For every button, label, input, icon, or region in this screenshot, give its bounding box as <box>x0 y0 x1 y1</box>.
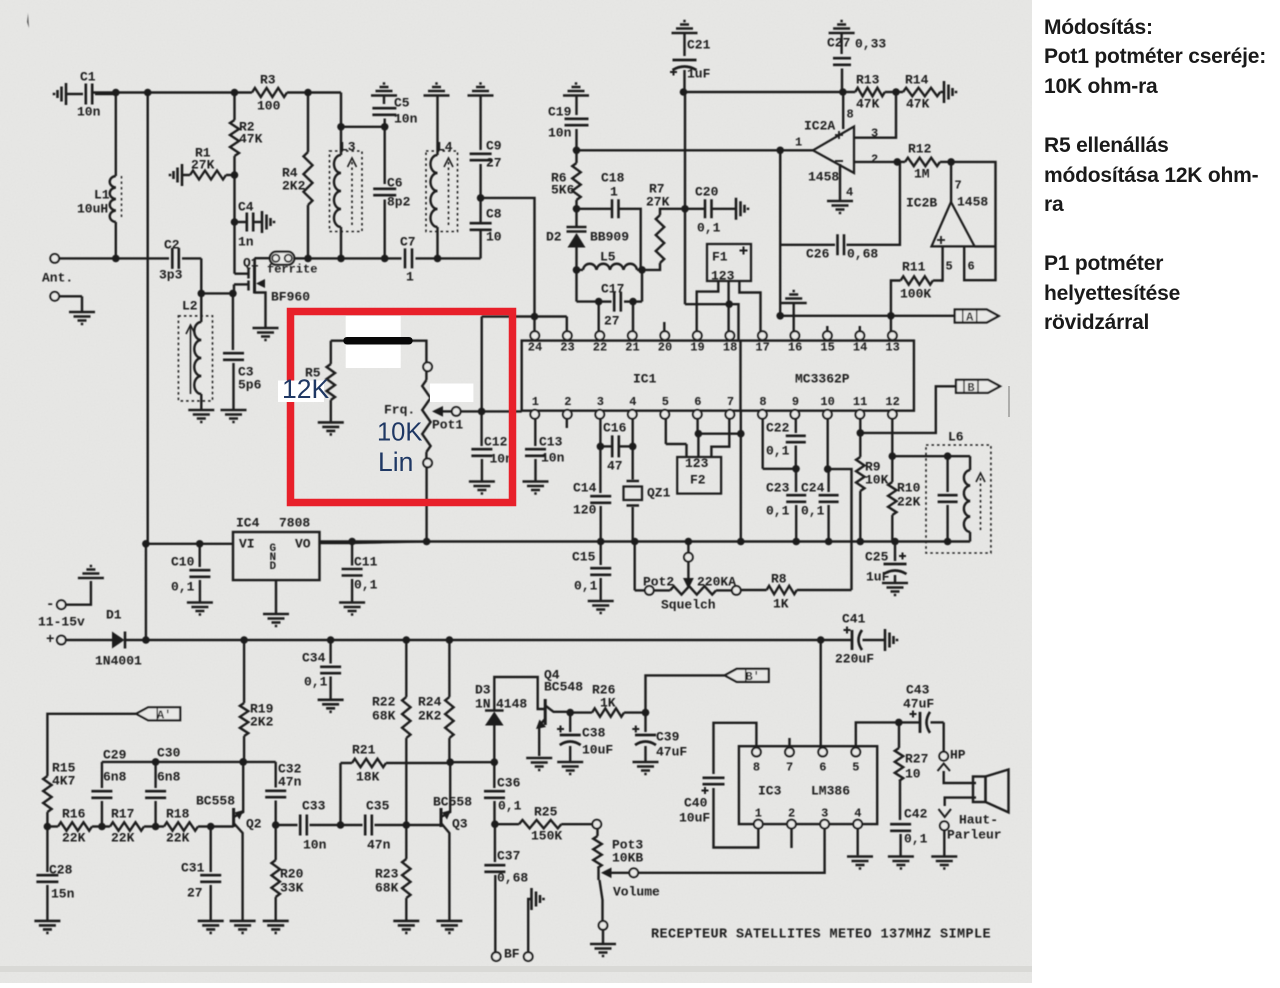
svg-text:5: 5 <box>662 395 669 409</box>
svg-text:LM386: LM386 <box>811 783 850 798</box>
wire IC4 ground <box>275 580 277 614</box>
potentiometer Pot3 10KB Volume <box>592 820 601 829</box>
capacitor C16 <box>599 419 601 447</box>
svg-text:C39: C39 <box>656 729 680 744</box>
resistor R6 <box>572 163 580 200</box>
ground L2 <box>188 410 214 422</box>
svg-text:BC558: BC558 <box>433 794 472 809</box>
capacitor C20 <box>685 208 704 210</box>
svg-text:8: 8 <box>847 108 854 122</box>
svg-text:C25: C25 <box>865 549 889 564</box>
node C22/C23 <box>792 465 800 473</box>
node C24/R8 tap <box>824 465 832 473</box>
svg-text:R20: R20 <box>280 866 304 881</box>
capacitor C2 <box>116 257 169 259</box>
node C34 <box>327 636 335 644</box>
node R24/R21/Q3 <box>446 758 454 766</box>
ground C34 <box>318 700 344 712</box>
ground C21 top <box>672 21 698 33</box>
wire pin13 stub <box>890 316 892 331</box>
wire pin8 drop <box>762 419 764 469</box>
svg-text:C23: C23 <box>766 480 790 495</box>
transistor Q3 BC558 <box>440 808 443 827</box>
capacitor C3 <box>232 293 234 350</box>
svg-text:C15: C15 <box>572 549 596 564</box>
svg-text:R17: R17 <box>111 806 134 821</box>
svg-text:5K6: 5K6 <box>551 182 575 197</box>
svg-text:C40: C40 <box>684 795 708 810</box>
capacitor C40 <box>703 778 725 784</box>
ground BF sideways <box>532 888 544 910</box>
node Pot1 wiper/C12 <box>478 408 486 416</box>
transistor Q2 BC558 <box>232 808 235 827</box>
crystal QZ1 <box>632 419 634 447</box>
svg-text:C6: C6 <box>387 175 403 190</box>
svg-text:C24: C24 <box>801 480 825 495</box>
wire +12V top bus <box>93 91 235 93</box>
resistor R27 <box>898 722 900 748</box>
scan artifact line right edge <box>1008 386 1010 417</box>
IC U1 IC1 MC3362P body <box>522 341 914 411</box>
svg-text:C12: C12 <box>484 434 508 449</box>
potentiometer Pot2 220KA Squelch <box>634 542 636 591</box>
node R17/R18/C30 <box>152 823 160 831</box>
capacitor C37 <box>494 824 496 862</box>
svg-text:1458: 1458 <box>957 194 988 209</box>
ground C11 <box>339 603 365 615</box>
node L3 bottom <box>337 255 345 263</box>
svg-text:F1: F1 <box>712 249 728 264</box>
potentiometer Pot1 <box>423 362 432 371</box>
svg-text:F2: F2 <box>690 472 706 487</box>
connector B' <box>725 669 769 682</box>
wire VO to bus <box>320 542 353 544</box>
node QZ1/Pot2 <box>631 538 639 546</box>
wire pin-top bus <box>482 315 567 317</box>
svg-text:1: 1 <box>755 807 762 821</box>
svg-text:18: 18 <box>723 341 737 355</box>
wire op-amp supply bus <box>684 91 843 93</box>
terminal speaker return <box>940 821 949 830</box>
wire IC2A input row <box>577 149 781 151</box>
node C3/gate2 <box>229 290 237 298</box>
connector A' <box>136 707 180 720</box>
resistor R11 <box>901 276 933 284</box>
ground IC4 <box>263 614 289 626</box>
inductor L1 <box>115 93 117 177</box>
svg-text:15n: 15n <box>51 886 75 901</box>
node demod junction <box>776 312 784 320</box>
svg-text:13: 13 <box>885 341 899 355</box>
svg-text:68K: 68K <box>372 708 396 723</box>
svg-text:C28: C28 <box>49 862 73 877</box>
scan mark top-left <box>27 13 29 28</box>
wire F1 pin1 to IC1 pin19 <box>697 281 719 331</box>
capacitor C28 <box>46 827 48 873</box>
ground R5 <box>318 422 344 434</box>
ground pin16 symbol <box>781 291 807 303</box>
inductor L3 tank <box>330 151 363 232</box>
node C36/C37/R25 <box>491 820 499 828</box>
svg-text:22K: 22K <box>62 830 86 845</box>
ground C28 <box>34 921 60 933</box>
ground C12 <box>469 482 495 494</box>
node C19/R6 <box>573 147 581 155</box>
svg-text:10: 10 <box>905 766 921 781</box>
svg-text:14: 14 <box>853 341 867 355</box>
resistor R4 <box>307 93 309 153</box>
Pot2 wiper <box>684 553 693 562</box>
ground C38 <box>557 762 583 774</box>
node L1 bottom <box>112 255 120 263</box>
svg-text:1uF: 1uF <box>866 569 890 584</box>
node C17 left / pin22 <box>595 298 603 306</box>
capacitor C7 <box>405 248 412 268</box>
capacitor C23 <box>795 469 797 492</box>
svg-text:8: 8 <box>753 761 760 775</box>
wire tank row <box>308 257 341 259</box>
terminal Ant ground <box>50 292 59 301</box>
svg-text:R21: R21 <box>352 742 376 757</box>
svg-text:100K: 100K <box>900 286 931 301</box>
ground C39 <box>633 762 659 774</box>
wire pin15 stub <box>826 326 828 331</box>
white patch over old pot label <box>430 384 474 403</box>
svg-text:C17: C17 <box>601 281 624 296</box>
svg-text:VI: VI <box>239 536 255 551</box>
op-amp IC2B 1458 <box>932 202 975 246</box>
svg-text:C2: C2 <box>164 237 180 252</box>
svg-text:8: 8 <box>759 395 766 409</box>
capacitor C1 <box>54 83 66 105</box>
wire pin20 stub <box>663 322 665 331</box>
resistor R15 <box>43 776 51 812</box>
resistor R1 <box>170 164 182 186</box>
resistor R20 <box>275 825 277 860</box>
svg-text:10KB: 10KB <box>612 850 643 865</box>
svg-text:6: 6 <box>819 761 826 775</box>
svg-text:VO: VO <box>295 536 311 551</box>
svg-text:1N: 1N <box>475 696 491 711</box>
svg-text:19: 19 <box>690 341 704 355</box>
wire bus to pin23 <box>566 317 568 332</box>
capacitor C35 <box>341 824 363 826</box>
wire A' to R15 <box>47 714 136 776</box>
svg-text:3p3: 3p3 <box>159 267 183 282</box>
node R9 bus <box>857 538 865 546</box>
IC3 bottom pin terminals <box>754 820 763 829</box>
ground C3 <box>221 410 247 422</box>
svg-text:C19: C19 <box>548 104 572 119</box>
wire Pot1 bottom to +8V <box>425 467 427 541</box>
capacitor C32 <box>275 762 277 788</box>
svg-text:120: 120 <box>573 502 597 517</box>
svg-text:C1: C1 <box>80 69 96 84</box>
node R26/C39/B' <box>642 709 650 717</box>
node C17 right / pin21 <box>629 298 637 306</box>
svg-text:220KA: 220KA <box>697 574 736 589</box>
svg-text:20: 20 <box>658 341 672 355</box>
svg-text:10: 10 <box>486 229 502 244</box>
svg-text:3: 3 <box>597 395 604 409</box>
svg-text:C36: C36 <box>497 775 521 790</box>
svg-text:C27: C27 <box>827 35 850 50</box>
node R12 right / pin7 <box>947 158 955 166</box>
node R18/Q2 base/C31 <box>207 823 215 831</box>
svg-text:27: 27 <box>604 313 620 328</box>
node C26 loop top <box>776 147 784 155</box>
white patch over old wiring <box>346 316 401 368</box>
svg-text:C4: C4 <box>238 199 254 214</box>
svg-text:7: 7 <box>786 761 793 775</box>
wire Q2 node to C32 <box>243 761 276 763</box>
svg-text:C26: C26 <box>806 246 830 261</box>
ceramic filter F2 <box>665 419 667 444</box>
ferrite bead <box>255 257 271 259</box>
svg-text:10uF: 10uF <box>679 810 710 825</box>
svg-text:4K7: 4K7 <box>52 773 75 788</box>
svg-text:0,68: 0,68 <box>497 870 528 885</box>
svg-text:47n: 47n <box>367 837 391 852</box>
svg-text:10n: 10n <box>303 837 327 852</box>
resistor R24 <box>448 640 450 697</box>
capacitor C30 <box>154 762 156 788</box>
svg-text:47K: 47K <box>906 96 930 111</box>
node R7/C20 supply <box>681 205 689 213</box>
svg-text:47n: 47n <box>278 774 302 789</box>
node R6/D2/C18 <box>573 205 581 213</box>
IC U4 IC4 7808 body <box>233 532 320 580</box>
wire IC3 pin4 ground <box>857 829 859 856</box>
capacitor C36 <box>493 762 495 788</box>
svg-text:16: 16 <box>788 341 802 355</box>
svg-text:R22: R22 <box>372 694 396 709</box>
inductor L5 <box>583 264 637 270</box>
svg-text:L4: L4 <box>437 139 453 154</box>
capacitor C13 <box>534 419 536 446</box>
svg-text:R18: R18 <box>166 806 190 821</box>
wire R5 to Pot1 <box>331 341 427 363</box>
svg-text:12K: 12K <box>282 374 329 404</box>
svg-text:5: 5 <box>852 761 859 775</box>
node R19/Q2 emitter <box>239 758 247 766</box>
svg-text:5: 5 <box>946 260 953 274</box>
node R4 bottom <box>304 255 312 263</box>
svg-text:21: 21 <box>625 341 639 355</box>
node C6 bottom <box>381 255 389 263</box>
wire IC3 pin8-pin1 loop with C40 <box>714 723 757 774</box>
ground C41 <box>885 629 897 651</box>
Pot1 wiper <box>432 406 443 417</box>
svg-text:0,1: 0,1 <box>498 798 522 813</box>
svg-text:4: 4 <box>629 395 636 409</box>
svg-text:IC3: IC3 <box>758 783 782 798</box>
node C24 bus <box>825 538 833 546</box>
svg-text:C43: C43 <box>906 682 930 697</box>
svg-text:R8: R8 <box>771 571 787 586</box>
svg-text:1: 1 <box>406 269 414 284</box>
node R19 top <box>240 636 248 644</box>
svg-text:L5: L5 <box>600 249 616 264</box>
node C41/IC3 supply <box>817 636 825 644</box>
svg-text:47uF: 47uF <box>656 744 687 759</box>
ground C13 <box>523 482 549 494</box>
ground C27 top <box>829 21 855 33</box>
capacitor C22 <box>795 419 797 433</box>
Pot3 wiper <box>601 868 612 879</box>
svg-text:C33: C33 <box>302 798 326 813</box>
svg-text:23: 23 <box>560 341 574 355</box>
wire F2 pin2 to vertical <box>698 433 740 435</box>
connector A <box>955 310 999 323</box>
svg-text:47: 47 <box>607 458 623 473</box>
svg-text:Haut-: Haut- <box>959 812 998 827</box>
wire +12V feed to IC4 <box>146 93 148 544</box>
svg-text:C8: C8 <box>486 206 502 221</box>
IC U3 IC3 LM386 body <box>739 746 877 824</box>
ground Q4 emitter <box>526 758 552 770</box>
capacitor C6 <box>384 127 386 184</box>
svg-text:IC4: IC4 <box>236 515 260 530</box>
capacitor C17 <box>575 270 577 302</box>
svg-text:R23: R23 <box>375 866 399 881</box>
capacitor C39 <box>644 713 646 732</box>
svg-text:5p6: 5p6 <box>238 377 262 392</box>
svg-text:12: 12 <box>885 395 899 409</box>
svg-text:R16: R16 <box>62 806 86 821</box>
resistor R19 <box>243 640 245 703</box>
svg-text:2K2: 2K2 <box>250 714 274 729</box>
svg-text:27: 27 <box>486 155 502 170</box>
svg-text:C5: C5 <box>394 95 410 110</box>
node output/R27/C43 <box>895 719 903 727</box>
svg-text:1N4001: 1N4001 <box>95 653 142 668</box>
svg-text:R25: R25 <box>534 804 558 819</box>
IC1 bottom pin terminals <box>530 410 539 419</box>
node Pot2 wiper <box>685 538 693 546</box>
resistor R7 <box>642 263 660 270</box>
ground Q2 collector <box>230 921 256 933</box>
capacitor C15 <box>600 542 602 566</box>
svg-text:B': B' <box>745 670 759 684</box>
wire drain row <box>294 257 308 259</box>
svg-text:10n: 10n <box>548 125 572 140</box>
svg-text:27: 27 <box>187 885 203 900</box>
svg-text:18K: 18K <box>356 769 380 784</box>
svg-text:11-15v: 11-15v <box>38 614 85 629</box>
node R11/pin13/A <box>887 312 895 320</box>
red rectangle highlight <box>291 312 513 503</box>
svg-text:17: 17 <box>755 341 769 355</box>
terminal Ant. <box>50 254 59 263</box>
node F1 pin2/pin18 <box>725 300 733 308</box>
svg-text:C34: C34 <box>302 650 326 665</box>
svg-text:10uH: 10uH <box>77 201 108 216</box>
node C32/R20/C33 <box>272 821 280 829</box>
node D3/C36 <box>491 758 499 766</box>
resistor R25 <box>495 823 519 825</box>
svg-text:0,1: 0,1 <box>574 578 598 593</box>
svg-text:BC548: BC548 <box>544 679 583 694</box>
svg-text:0,1: 0,1 <box>801 503 825 518</box>
node L2 top <box>198 290 206 298</box>
resistor R10 <box>891 419 893 456</box>
svg-text:L2: L2 <box>182 298 198 313</box>
wire Pot3 bottom <box>600 880 603 921</box>
svg-text:C31: C31 <box>181 860 205 875</box>
svg-text:C16: C16 <box>603 420 627 435</box>
capacitor C29 <box>101 762 103 788</box>
wire IC2A pin4 ground <box>839 164 841 201</box>
wire IC2B feedback loop <box>951 162 995 280</box>
capacitor C14 <box>599 446 601 493</box>
svg-text:7808: 7808 <box>279 515 310 530</box>
node R1/R2 <box>231 171 239 179</box>
node F2 net bus <box>737 538 745 546</box>
wire pin11 to connector B <box>859 419 861 433</box>
svg-text:10n: 10n <box>394 111 418 126</box>
wire F1 pin3 to IC1 pin17 <box>739 281 760 331</box>
svg-text:123: 123 <box>685 456 709 471</box>
svg-text:150K: 150K <box>531 828 562 843</box>
wire +8V bus <box>320 540 427 542</box>
svg-text:C18: C18 <box>601 170 625 185</box>
wire pin14 stub <box>859 326 861 331</box>
svg-text:BF: BF <box>504 946 520 961</box>
svg-text:8p2: 8p2 <box>387 194 411 209</box>
inductor L4 tank <box>426 151 458 232</box>
wire base to Q2 <box>211 825 234 827</box>
ground speaker <box>931 857 957 869</box>
wire IC2A pin3 <box>854 92 896 138</box>
svg-text:R14: R14 <box>905 72 929 87</box>
svg-text:6: 6 <box>968 260 975 274</box>
wire VI column lower <box>145 544 147 640</box>
svg-text:IC1: IC1 <box>633 371 657 386</box>
wire F1/F2 link through IC1 <box>729 304 738 340</box>
svg-text:Ant.: Ant. <box>42 270 73 285</box>
svg-text:Pot1: Pot1 <box>432 417 463 432</box>
svg-text:C35: C35 <box>366 798 390 813</box>
svg-text:9: 9 <box>792 395 799 409</box>
capacitor C12 <box>480 411 482 446</box>
svg-text:68K: 68K <box>375 880 399 895</box>
wire R8 riser <box>828 469 852 590</box>
capacitor C11 <box>351 543 353 566</box>
svg-text:1K: 1K <box>773 596 789 611</box>
svg-text:C21: C21 <box>687 37 711 52</box>
svg-text:10uF: 10uF <box>582 742 613 757</box>
svg-text:2K2: 2K2 <box>418 708 442 723</box>
node R16/R17/C29 <box>98 823 106 831</box>
svg-text:33K: 33K <box>280 880 304 895</box>
wire IC3 pin5 output <box>856 722 899 747</box>
resistor R3 <box>252 88 287 97</box>
node C4 <box>231 218 239 226</box>
wire +12V rail bottom <box>125 639 146 641</box>
svg-text:10K: 10K <box>865 472 889 487</box>
svg-text:6: 6 <box>694 395 701 409</box>
ceramic filter F1 <box>707 244 751 281</box>
svg-text:10: 10 <box>820 395 834 409</box>
ground C42 <box>888 857 914 869</box>
svg-text:C22: C22 <box>766 420 790 435</box>
transistor Q4 BC548 <box>544 699 547 725</box>
svg-text:220uF: 220uF <box>835 651 874 666</box>
transistor Q1 BF960 dual-gate MOSFET <box>235 273 248 275</box>
wire IC3 pin7 stub <box>788 738 790 748</box>
svg-text:1M: 1M <box>914 166 930 181</box>
